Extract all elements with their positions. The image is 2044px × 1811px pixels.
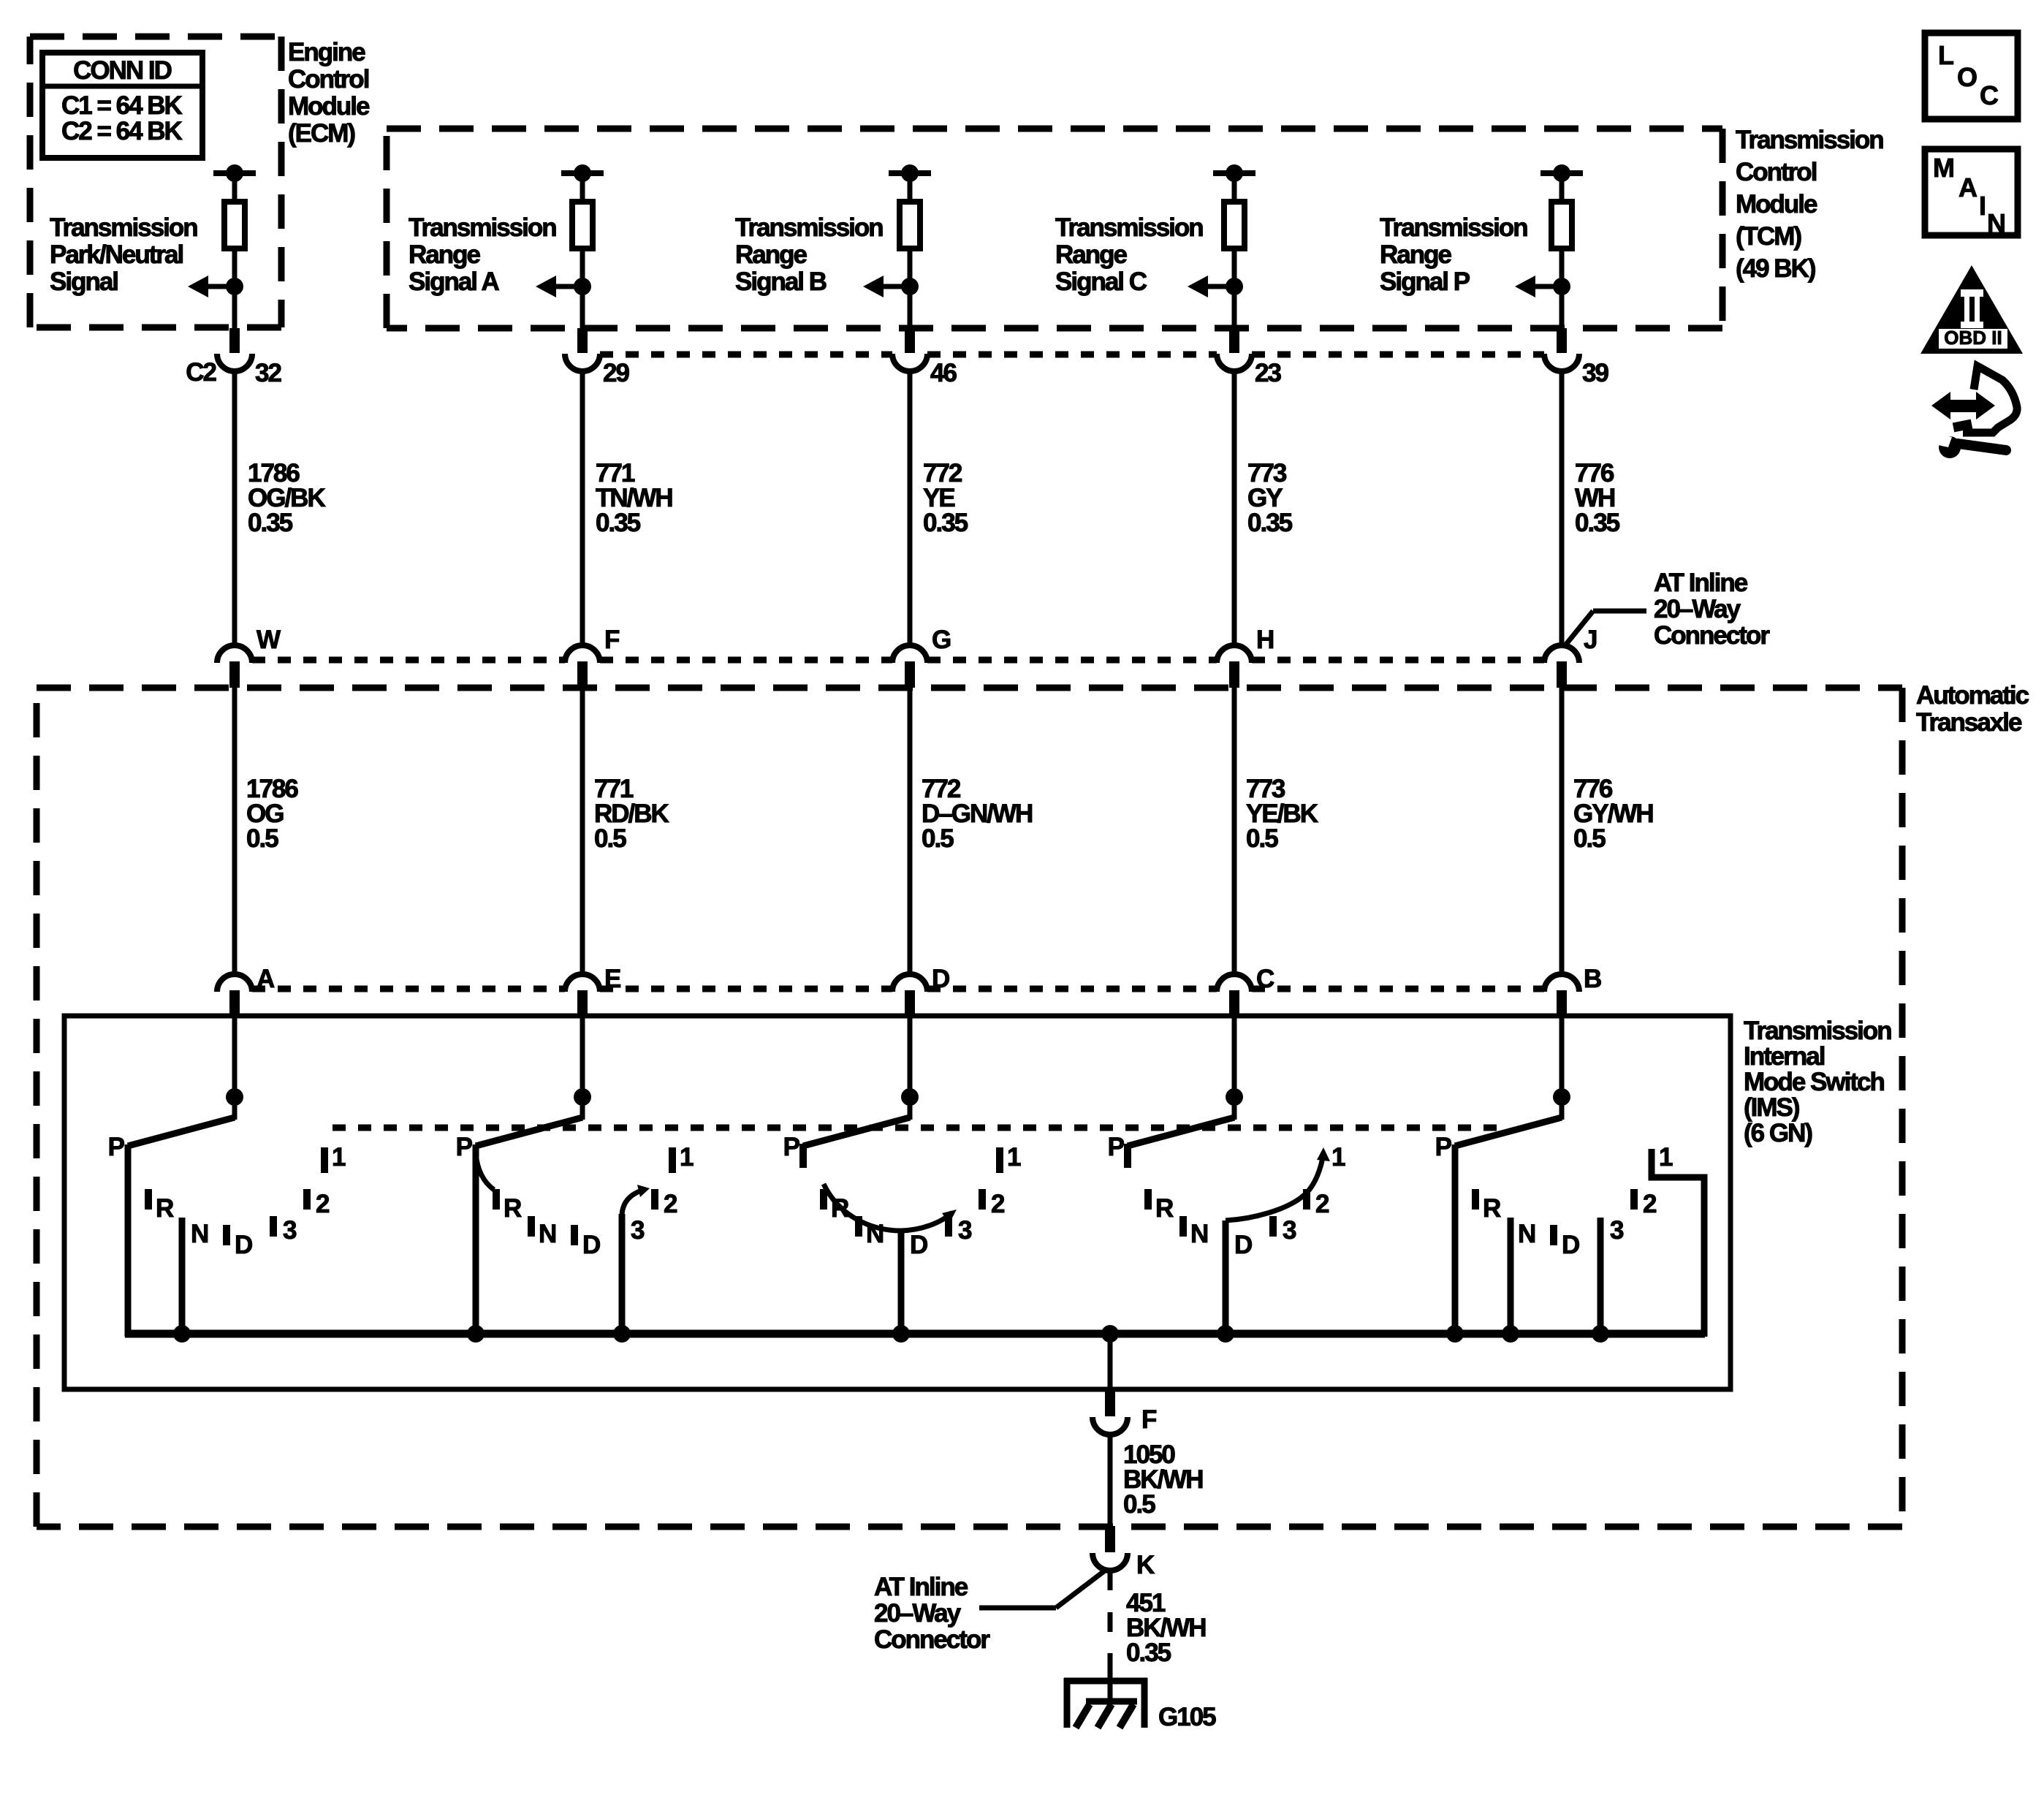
svg-text:3: 3 (1610, 1216, 1624, 1245)
IMS common ground bus (125, 1330, 1705, 1338)
switch 3 D contact drop (892, 1229, 910, 1343)
switch 2 P contact drop (467, 1144, 485, 1343)
wire label 772 YE 0.35 (923, 459, 968, 537)
svg-text:N: N (1190, 1220, 1207, 1248)
OBD II icon (1920, 265, 2023, 354)
svg-text:Park/Neutral: Park/Neutral (50, 240, 183, 269)
IMS connector pin C (1217, 965, 1274, 1017)
wire 772 D–GN/WH (908, 688, 913, 976)
AT inline 20-way connector pin F (565, 626, 620, 688)
svg-text:3: 3 (1283, 1216, 1296, 1245)
svg-text:P: P (456, 1133, 473, 1161)
switch 1 junction (226, 1088, 243, 1106)
svg-text:H: H (1256, 626, 1273, 654)
svg-text:D: D (1562, 1231, 1579, 1259)
svg-text:O: O (1957, 62, 1977, 92)
svg-text:0.5: 0.5 (1573, 824, 1606, 853)
svg-text:Engine: Engine (288, 38, 365, 67)
wire label 776 WH 0.35 (1575, 459, 1620, 537)
svg-text:K: K (1136, 1551, 1155, 1579)
IMS switch 4 wiper (range C) (1128, 1117, 1234, 1146)
svg-text:0.35: 0.35 (596, 509, 641, 537)
svg-text:2: 2 (316, 1190, 330, 1218)
svg-text:0.5: 0.5 (1123, 1490, 1155, 1519)
switch 5 position contacts (1435, 1133, 1673, 1259)
label Transmission Range Signal B (735, 213, 883, 296)
switch 4 D contact drop (1217, 1220, 1234, 1343)
svg-text:R: R (504, 1194, 522, 1223)
svg-text:J: J (1584, 626, 1597, 654)
label Transmission Range Signal P (1380, 213, 1527, 296)
switch 2 junction (574, 1088, 591, 1106)
svg-text:1: 1 (1007, 1143, 1021, 1172)
svg-text:0.5: 0.5 (922, 824, 954, 853)
svg-text:D: D (582, 1231, 600, 1259)
wire into switch 1 (232, 1017, 238, 1120)
MAIN icon (1925, 149, 2018, 238)
svg-text:C2: C2 (186, 358, 216, 387)
svg-text:P: P (1435, 1133, 1452, 1161)
svg-text:Signal: Signal (50, 267, 118, 296)
svg-text:Transaxle: Transaxle (1916, 708, 2022, 737)
switch 3 junction (901, 1088, 919, 1106)
svg-text:20–Way: 20–Way (1654, 595, 1741, 623)
Automatic Transaxle dashed box (37, 688, 1902, 1527)
svg-text:Transmission: Transmission (1736, 126, 1883, 154)
wire into switch 3 (908, 1017, 913, 1120)
wire 451 dashed (1108, 1571, 1113, 1701)
switch 3 position contacts (783, 1133, 1021, 1259)
wire into switch 2 (580, 1017, 585, 1120)
svg-text:0.35: 0.35 (1126, 1639, 1171, 1667)
AT inline 20-way connector pin W (217, 626, 281, 688)
svg-text:N: N (1518, 1220, 1535, 1248)
svg-text:2: 2 (664, 1190, 677, 1218)
IMS connector pin E (565, 965, 620, 1017)
svg-text:R: R (156, 1194, 174, 1223)
wire into switch 4 (1232, 1017, 1237, 1120)
svg-text:Range: Range (735, 240, 808, 269)
wire 771 RD/BK (580, 688, 585, 976)
svg-text:Internal: Internal (1744, 1042, 1825, 1071)
TCM connector grouping dashed line (600, 352, 1544, 358)
svg-text:G105: G105 (1158, 1703, 1216, 1731)
svg-text:(ECM): (ECM) (288, 119, 354, 148)
switch 4 junction (1226, 1088, 1243, 1106)
svg-text:3: 3 (958, 1216, 972, 1245)
IMS connector pin D (892, 965, 949, 1017)
AT inline 20-way connector pin H (1217, 626, 1273, 688)
svg-text:1: 1 (332, 1143, 346, 1172)
switch 4 D-3-2-1 contact arc (1226, 1147, 1330, 1220)
svg-text:B: B (1584, 965, 1601, 993)
svg-text:Range: Range (1055, 240, 1128, 269)
svg-text:23: 23 (1255, 359, 1281, 387)
svg-text:1: 1 (1331, 1143, 1345, 1172)
svg-text:0.5: 0.5 (594, 824, 626, 853)
svg-text:Signal A: Signal A (409, 267, 499, 296)
wire 771 TN/WH (580, 371, 585, 648)
svg-text:A: A (1958, 172, 1977, 202)
IMS switch 2 wiper (range A) (476, 1117, 582, 1146)
branch 1: module connector pin 32 (186, 328, 281, 387)
svg-text:0.5: 0.5 (1246, 824, 1278, 853)
wire label 1050 BK/WH 0.5 (1123, 1440, 1203, 1519)
Engine Control Module (ECM) dashed box (30, 37, 281, 327)
IMS switch 1 wiper (P/N signal) (128, 1117, 235, 1146)
Automatic Transaxle label (1916, 681, 2029, 737)
wire label 772 D–GN/WH 0.5 (922, 775, 1032, 853)
svg-text:0.35: 0.35 (923, 509, 968, 537)
wire label 773 YE/BK 0.5 (1246, 775, 1318, 853)
svg-text:F: F (1141, 1405, 1157, 1434)
branch 2: signal tap arrow (536, 276, 591, 297)
svg-text:Transmission: Transmission (735, 213, 883, 242)
branch 5: module connector pin 39 (1544, 328, 1608, 387)
branch 3: module connector pin 46 (892, 328, 957, 387)
switch 1 P contact drop to ground bus (125, 1144, 132, 1337)
branch 4: internal pull-up resistor R4 (1213, 164, 1255, 328)
AT inline 20-way connector pin J (1544, 626, 1597, 688)
svg-text:(6 GN): (6 GN) (1744, 1119, 1812, 1147)
switch 4 position contacts (1108, 1133, 1345, 1259)
IMS connector pin B (1544, 965, 1601, 1017)
svg-text:Transmission: Transmission (1055, 213, 1203, 242)
branch 1: signal tap arrow (188, 276, 243, 297)
svg-text:Signal C: Signal C (1055, 267, 1147, 296)
svg-text:C1 = 64 BK: C1 = 64 BK (61, 91, 183, 120)
svg-text:N: N (539, 1220, 555, 1248)
wire 1050 (1108, 1435, 1113, 1527)
bus output junction (1101, 1325, 1119, 1343)
svg-text:Automatic: Automatic (1916, 681, 2029, 710)
svg-text:2: 2 (991, 1190, 1005, 1218)
wire 776 WH (1559, 371, 1565, 648)
svg-text:Connector: Connector (874, 1625, 990, 1654)
svg-text:Transmission: Transmission (409, 213, 556, 242)
svg-text:I: I (1979, 191, 1985, 221)
svg-text:2: 2 (1643, 1190, 1657, 1218)
svg-text:Transmission: Transmission (1744, 1017, 1891, 1045)
svg-text:D: D (910, 1231, 927, 1259)
branch 1: internal pull-up resistor R1 (213, 164, 256, 328)
connector F (1093, 1389, 1157, 1435)
svg-text:39: 39 (1582, 359, 1608, 387)
svg-text:Control: Control (1736, 158, 1817, 186)
svg-text:G: G (932, 626, 951, 654)
svg-text:P: P (783, 1133, 800, 1161)
svg-text:D: D (1234, 1231, 1252, 1259)
svg-text:R: R (1155, 1194, 1174, 1223)
svg-text:29: 29 (603, 359, 629, 387)
switch 5 N contact drop (1502, 1218, 1519, 1343)
switch 3 R-N-D-3 contact arc (824, 1184, 957, 1231)
wire into switch 5 (1559, 1017, 1565, 1120)
switch 5 junction (1553, 1088, 1570, 1106)
switch 5 contact 3 drop (1592, 1218, 1609, 1343)
label Transmission Range Signal C (1055, 213, 1203, 296)
branch 3: internal pull-up resistor R3 (889, 164, 931, 328)
svg-text:20–Way: 20–Way (874, 1599, 962, 1628)
svg-text:C2 = 64 BK: C2 = 64 BK (61, 117, 183, 145)
CONN ID table (42, 53, 202, 158)
svg-text:Transmission: Transmission (1380, 213, 1527, 242)
switch 2 contact 3 drop with arc toward 2 (613, 1185, 650, 1343)
wire label 771 RD/BK 0.5 (594, 775, 669, 853)
svg-text:Mode Switch: Mode Switch (1744, 1068, 1885, 1096)
wire 773 YE/BK (1232, 688, 1237, 976)
wire label 1786 OG 0.5 (246, 775, 298, 853)
wire label 451 BK/WH 0.35 (1126, 1589, 1206, 1667)
switch 5 contact 1 wire to bus end (1652, 1149, 1704, 1337)
wire 1786 OG/BK (232, 371, 238, 648)
svg-text:32: 32 (255, 359, 281, 387)
branch 3: signal tap arrow (863, 276, 919, 297)
svg-text:(IMS): (IMS) (1744, 1093, 1799, 1122)
Transmission Internal Mode Switch (IMS) box (64, 1016, 1730, 1389)
IMS connector pin A (217, 965, 275, 1017)
branch 4: module connector pin 23 (1217, 328, 1281, 387)
svg-text:N: N (1987, 208, 2005, 238)
branch 2: internal pull-up resistor R2 (561, 164, 604, 328)
AT inline 20-way connector pin G (892, 626, 951, 688)
AT Inline 20-Way Connector label (K) (874, 1571, 1105, 1654)
AT Inline 20-Way Connector label (row 2) (1565, 569, 1770, 650)
svg-text:(49 BK): (49 BK) (1736, 254, 1815, 283)
wire 772 YE (908, 371, 913, 648)
branch 5: internal pull-up resistor R5 (1540, 164, 1583, 328)
svg-text:OBD II: OBD II (1944, 327, 2002, 349)
wire label 1786 OG/BK 0.35 (248, 459, 325, 537)
svg-text:N: N (191, 1220, 208, 1248)
svg-text:F: F (604, 626, 620, 654)
Transmission Control Module (TCM) dashed box (387, 129, 1722, 328)
svg-text:0.35: 0.35 (1575, 509, 1620, 537)
branch 2: module connector pin 29 (565, 328, 629, 387)
IMS connector grouping dashed line (row A-B) (252, 986, 1544, 992)
svg-text:L: L (1938, 40, 1953, 70)
ground G105 (1064, 1678, 1216, 1731)
svg-text:3: 3 (631, 1216, 645, 1245)
svg-text:0.5: 0.5 (246, 824, 278, 853)
wire label 776 GY/WH 0.5 (1573, 775, 1653, 853)
svg-text:Signal P: Signal P (1380, 267, 1470, 296)
svg-text:P: P (108, 1133, 125, 1161)
IMS label (1744, 1017, 1891, 1147)
service/diagnostics icon (1931, 366, 2017, 458)
branch 5: signal tap arrow (1515, 276, 1570, 297)
switch 2 P-R contact arc (476, 1153, 494, 1190)
AT inline connector grouping dashed line (row W-J) (252, 657, 1544, 664)
LOC icon (1925, 33, 2018, 119)
svg-text:Range: Range (1380, 240, 1452, 269)
svg-text:1: 1 (1659, 1143, 1673, 1172)
ECM label (288, 38, 370, 148)
svg-text:0.35: 0.35 (1247, 509, 1293, 537)
svg-text:Control: Control (288, 65, 369, 94)
connector K (1093, 1526, 1155, 1579)
wire label 773 GY 0.35 (1247, 459, 1293, 537)
label Transmission Park/Neutral Signal (50, 213, 197, 296)
svg-text:Connector: Connector (1654, 621, 1770, 650)
svg-text:D: D (235, 1231, 252, 1259)
svg-text:Transmission: Transmission (50, 213, 197, 242)
svg-text:Signal B: Signal B (735, 267, 827, 296)
svg-text:M: M (1933, 153, 1953, 183)
svg-text:R: R (1483, 1194, 1501, 1223)
switch 1 position contacts (108, 1133, 346, 1259)
svg-text:3: 3 (283, 1216, 297, 1245)
branch 4: signal tap arrow (1188, 276, 1243, 297)
svg-text:Module: Module (1736, 190, 1817, 219)
switch 1 N contact drop (173, 1218, 191, 1343)
svg-text:(TCM): (TCM) (1736, 222, 1801, 251)
svg-text:2: 2 (1315, 1190, 1329, 1218)
IMS switch 3 wiper (range B) (803, 1117, 910, 1146)
wire label 771 TN/WH 0.35 (596, 459, 672, 537)
svg-text:AT Inline: AT Inline (1654, 569, 1748, 597)
svg-text:Range: Range (409, 240, 481, 269)
IMS switch 5 wiper (range P) (1455, 1117, 1562, 1146)
svg-text:CONN ID: CONN ID (73, 56, 172, 85)
switch 2 position contacts (456, 1133, 694, 1259)
svg-text:AT Inline: AT Inline (874, 1573, 968, 1601)
svg-text:C: C (1980, 80, 1999, 110)
label Transmission Range Signal A (409, 213, 556, 296)
wire 773 GY (1232, 371, 1237, 648)
IMS wiper mechanical linkage dashed line (333, 1125, 1509, 1131)
wire 1786 OG (232, 688, 238, 976)
svg-text:Module: Module (288, 92, 370, 121)
TCM label (1736, 126, 1883, 283)
svg-text:1: 1 (680, 1143, 694, 1172)
svg-text:P: P (1108, 1133, 1125, 1161)
svg-text:46: 46 (930, 359, 957, 387)
wire 776 GY/WH (1559, 688, 1565, 976)
switch 5 P contact drop (1446, 1144, 1464, 1343)
svg-text:W: W (257, 626, 281, 654)
wire from bus to connector F (1108, 1334, 1113, 1392)
svg-text:0.35: 0.35 (248, 509, 293, 537)
